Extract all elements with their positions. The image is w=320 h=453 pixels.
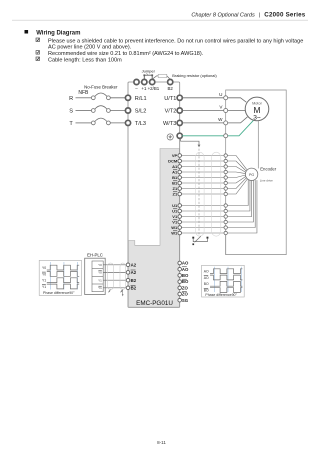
encoder commutation wire V1 [227,180,251,216]
jumper label [142,68,156,75]
motor terminal V [219,105,227,113]
svg-text:PG: PG [249,173,254,177]
card output terminal AObar [178,267,189,272]
EH-PLC box [85,258,106,294]
junction V1 [224,215,227,218]
checklist line 2 [36,51,204,57]
shield drain dashed line [198,149,200,237]
svg-text:3~: 3~ [253,115,261,122]
svg-text:ZO: ZO [182,285,189,290]
svg-text:Y1: Y1 [42,279,46,283]
svg-text:R: R [69,96,73,102]
wire V1 to junction [182,216,225,218]
svg-text:Y1: Y1 [98,279,102,283]
section bullet: Wiring Diagram [25,30,81,36]
wire DCM to junction [182,160,225,162]
jumper bar between +1 and +2/B1 [143,74,153,79]
drive input terminal R/L1 [125,95,146,102]
PLC cable shield oval 1 [108,263,114,290]
svg-text:Braking resistor (optional): Braking resistor (optional) [172,73,217,78]
breaker pole S [91,106,110,113]
svg-text:Cable length: Less than 100m: Cable length: Less than 100m [48,57,122,63]
svg-text:AO: AO [182,267,189,272]
junction A1bar [224,170,227,173]
svg-text:Y0: Y0 [42,272,46,276]
wire Z1 to junction [182,193,225,195]
encoder wire Z1 fan [227,178,246,189]
card terminal V1 [172,214,181,219]
output waveform box [202,265,245,297]
encoder commutation wire W1bar [227,180,257,233]
svg-text:Y1: Y1 [42,285,46,289]
wire U to motor [228,98,247,102]
card terminal W1 [171,225,181,230]
drive input terminal S/L2 [125,108,146,115]
wire V1 to junction [182,221,225,223]
svg-text:SG: SG [182,298,189,303]
svg-text:W/T3: W/T3 [163,121,176,127]
checklist line 3 [36,57,122,63]
svg-text:+1: +1 [141,86,147,91]
wire Z1 to junction [182,188,225,190]
card output terminal ZObar [178,292,189,297]
card output terminal BObar [178,279,189,284]
EMC-PG01U card body (gray) [128,149,179,308]
encoder cable boundary rectangle [226,90,287,255]
motor M 3~ [245,97,269,121]
svg-text:A1: A1 [172,170,178,175]
svg-text:AO: AO [204,276,209,280]
card terminal Z1bar [173,192,182,197]
wire B1 to junction [182,177,225,179]
junction U1 [224,204,227,207]
wire breaker to T terminal [110,122,128,124]
header rule [12,19,308,21]
wire V/T2 to motor bus [182,110,226,112]
wire PLC to B2 [103,279,126,281]
svg-text:B1: B1 [172,181,178,186]
svg-text:Line drive: Line drive [260,179,273,183]
PLC cable shield oval 2 [120,263,125,290]
encoder wire A1bar fan [227,172,245,174]
svg-text:BO: BO [204,282,209,286]
junction B1bar [224,181,227,184]
wire U1 to junction [182,205,225,207]
svg-text:VP: VP [172,153,178,158]
junction W1bar [224,231,227,234]
wire VP to junction [182,155,225,157]
svg-text:V: V [219,105,223,110]
AC motor drive outer body [128,82,180,308]
svg-text:Wiring Diagram: Wiring Diagram [36,30,80,36]
wire W to motor [228,117,248,123]
shield grounding switch [192,236,208,245]
motor terminal W [218,117,228,125]
svg-text:S/L2: S/L2 [135,109,147,115]
svg-text:V1: V1 [172,214,178,219]
svg-text:No-Fuse Breaker: No-Fuse Breaker [84,85,118,90]
svg-text:Z1: Z1 [173,186,178,191]
svg-text:B2: B2 [131,278,137,283]
svg-text:Chapter 8 Optional Cards: Chapter 8 Optional Cards [191,12,255,18]
junction Z1 [224,187,227,190]
card output terminal ZO [178,285,189,290]
card terminal W1bar [171,231,181,236]
drive output terminal U/T1 [164,95,182,102]
motor-encoder shaft link [257,120,259,168]
motor shield wire (teal) [182,135,226,137]
svg-text:AC power line (200 V and above: AC power line (200 V and above). [48,45,132,51]
wire PLC to A2 [103,264,126,266]
svg-text:B2: B2 [168,86,174,91]
wire PLC to A2bar [103,271,126,273]
svg-text:A1: A1 [172,164,178,169]
svg-text:Recommended wire size 0.21 to: Recommended wire size 0.21 to 0.81mm² (A… [48,51,204,57]
EH-PLC output ladder [92,261,103,292]
cable shield oval 2 [212,152,221,236]
motor terminal U [219,92,228,100]
svg-text:U1: U1 [172,209,178,214]
svg-text:Y0: Y0 [42,266,46,270]
card terminal U1bar [172,209,181,214]
phase R wire to breaker [76,97,92,99]
drive output terminal W/T3 [163,120,182,127]
encoder wire DCM fan [227,161,246,171]
drive input terminal T/L3 [125,120,146,127]
svg-text:Y0: Y0 [98,263,102,267]
wire breaker to R terminal [110,97,128,99]
junction W1 [224,226,227,229]
svg-text:BO: BO [204,289,209,293]
svg-text:B1: B1 [172,175,178,180]
drive ground symbol [167,134,173,140]
svg-text:W1: W1 [171,225,178,230]
junction V1bar [224,220,227,223]
wire breaker to S terminal [110,110,128,112]
encoder wire Z1bar fan [227,179,247,194]
svg-text:R/L1: R/L1 [135,96,147,102]
svg-text:V/T2: V/T2 [165,109,177,115]
card output terminal AO [178,261,189,266]
wire A1 to junction [182,171,225,173]
svg-text:BO: BO [182,273,189,278]
checklist line 1 [36,38,303,51]
junction DCM [224,159,227,162]
encoder commutation wire V1bar [227,180,253,222]
svg-text:M: M [254,105,261,115]
junction Z1bar [224,192,227,195]
svg-text:NFB: NFB [78,90,89,96]
wire W1 to junction [182,227,225,229]
DC bus terminal +1 [141,79,147,91]
svg-text:8-11: 8-11 [157,440,166,445]
wire W/T3 to motor bus [182,122,226,124]
svg-text:U/T1: U/T1 [164,96,176,102]
svg-text:Please use a shielded cable to: Please use a shielded cable to prevent i… [48,38,303,44]
phase S wire to breaker [76,110,92,112]
svg-text:A2: A2 [131,270,137,275]
PLC shield drain arrows [108,290,124,297]
card terminal A1bar [172,170,181,175]
card terminal Z1 [173,186,182,191]
encoder commutation wire U1bar [227,180,250,211]
svg-text:|: | [259,12,260,18]
encoder wire B1 fan [227,175,245,178]
svg-text:C2000 Series: C2000 Series [264,11,306,18]
card input terminal B2bar [126,285,137,290]
svg-text:Y0: Y0 [98,271,102,275]
card output terminal BO [178,273,189,278]
junction U1bar [224,209,227,212]
svg-text:BO: BO [182,279,189,284]
wire PLC to B2bar [103,287,126,289]
shield drain wire to arrow [181,138,201,147]
svg-text:T/L3: T/L3 [135,121,146,127]
encoder commutation wire U1 [227,180,248,205]
junction B1 [224,176,227,179]
encoder commutation wire W1 [227,180,255,227]
svg-text:ZO: ZO [182,292,189,297]
svg-text:Jumper: Jumper [142,68,156,73]
svg-text:U: U [219,92,222,97]
wire B1 to junction [182,182,225,184]
svg-text:EMC-PG01U: EMC-PG01U [136,300,173,307]
cable shield oval 1 [196,152,205,236]
shield junction [224,134,228,138]
svg-text:B2: B2 [131,285,137,290]
svg-text:Phase difference90°: Phase difference90° [205,293,237,297]
svg-text:DCM: DCM [168,159,178,164]
svg-text:Y1: Y1 [98,286,102,290]
svg-text:A2: A2 [131,262,137,267]
drive shield terminal [177,133,182,138]
svg-text:T: T [69,121,73,127]
wire A1 to junction [182,166,225,168]
svg-text:Phase difference90°: Phase difference90° [43,291,75,295]
PLC waveform box [39,260,81,295]
card terminal DCM [168,159,181,164]
braking resistor (optional) [152,74,170,79]
motor bus line [225,98,227,255]
svg-text:+2/B1: +2/B1 [148,86,160,91]
header: chapter title [191,11,305,18]
svg-text:S: S [69,109,73,115]
card terminal V1bar [172,220,181,225]
wire W1 to junction [182,232,225,234]
DC bus terminal +2/B1 [148,79,160,91]
card terminal B1 [172,175,181,180]
phase T wire to breaker [76,122,92,124]
card input terminal A2 [126,262,137,267]
card terminal A1 [172,164,181,169]
encoder wire B1bar fan [227,176,246,183]
svg-text:AO: AO [182,261,189,266]
encoder wire VP fan [227,156,246,170]
svg-text:W: W [218,117,223,122]
DC bus terminal B2 [168,79,174,91]
card terminal U1 [172,203,181,208]
card input terminal B2 [126,278,137,283]
card terminal VP [172,153,182,158]
card terminal B1bar [172,181,181,186]
card output terminal SG [178,298,189,303]
svg-text:Encoder: Encoder [260,166,277,171]
card input terminal A2bar [126,270,137,275]
junction A1 [224,165,227,168]
svg-text:U1: U1 [172,203,178,208]
svg-text:Z1: Z1 [173,192,178,197]
svg-text:EH-PLC: EH-PLC [87,252,103,257]
junction VP [224,154,227,157]
wire V to motor [228,110,246,112]
svg-text:W1: W1 [171,231,178,236]
breaker pole R [91,93,110,100]
drive output terminal V/T2 [165,108,183,115]
wire U1 to junction [182,210,225,212]
breaker pole T [91,118,110,125]
encoder wire A1 fan [227,167,245,173]
encoder PG circle [245,168,257,180]
wire U/T1 to motor bus [182,97,226,99]
svg-text:V1: V1 [172,220,178,225]
svg-text:AO: AO [204,270,209,274]
DC bus terminal &#8211; [134,79,139,91]
